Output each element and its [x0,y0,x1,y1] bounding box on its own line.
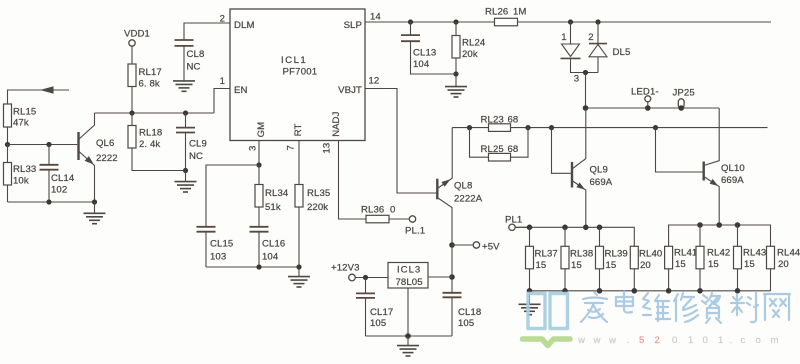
svg-text:105: 105 [458,318,474,329]
node ICL3 output junction [449,274,455,280]
transistor QL6 [79,113,118,202]
terminal LED1- [631,87,659,109]
wire sub-IC ground rail [206,266,299,268]
svg-text:RL33: RL33 [13,164,36,175]
svg-text:w: w [577,335,585,346]
node GM junction [256,162,261,167]
node rail RL42 [697,222,703,228]
svg-text:104: 104 [413,59,430,70]
node CL14 bottom [46,199,51,204]
node QL9 collector junction [583,105,589,111]
node RL24 bottom [453,71,458,76]
svg-text:RL40: RL40 [639,249,662,260]
wire QL8 emitter down [451,245,453,293]
svg-text:RL43: RL43 [743,248,766,259]
node base rail left [5,142,10,147]
capacitor CL18 [443,293,482,336]
svg-text:VDD1: VDD1 [124,29,150,40]
svg-text:15: 15 [708,259,719,270]
wire SLP top rail [365,21,771,23]
resistor RL36 [361,205,409,223]
node rail RL38 [562,225,568,231]
resistor RL39 [596,227,628,290]
svg-text:3: 3 [248,146,259,151]
svg-text:RL24: RL24 [462,38,486,49]
svg-text:7: 7 [286,145,297,150]
svg-text:CL14: CL14 [51,173,75,184]
svg-text:1M: 1M [513,7,527,18]
svg-text:.: . [627,335,630,346]
svg-text:CL8: CL8 [187,49,205,60]
svg-text:NC: NC [187,62,201,73]
svg-text:DLM: DLM [234,20,255,31]
node ICL3 ground [405,333,411,339]
wire QL10 base feed [656,128,703,172]
svg-text:0: 0 [672,335,677,346]
resistor RL23 [481,115,519,132]
svg-text:CL13: CL13 [413,48,436,59]
node bottom RL37 [527,288,533,294]
node bottom RL42 [697,288,703,294]
capacitor CL15 [197,227,234,267]
node QL6 emitter at rail [92,199,97,204]
capacitor CL8 [175,23,231,81]
svg-text:RT: RT [293,123,304,136]
svg-text:QL8: QL8 [454,181,472,192]
resistor RL38 [561,227,593,290]
svg-text:3: 3 [574,74,579,85]
svg-text:RL37: RL37 [535,249,558,260]
wire RL23 rail [452,127,767,129]
svg-text:GM: GM [256,122,267,138]
svg-text:15: 15 [571,260,582,271]
svg-text:15: 15 [744,259,755,270]
wire QL6 base rail [8,144,78,146]
resistor RL43 [734,225,767,291]
resistor RL37 [526,227,558,290]
svg-text:c: c [741,335,746,346]
ground below CL8 [173,81,195,91]
node DL5 pin2 top [595,19,600,24]
node RL35 bottom [296,264,301,269]
node CL14 top [46,142,51,147]
node LED1 junction [645,105,651,111]
terminal +5V [452,242,500,253]
svg-text:RL44: RL44 [777,248,800,259]
svg-text:10k: 10k [13,176,29,187]
node DL5 common [583,70,588,75]
node rail RL37 [527,225,533,231]
transistor QL8 [437,128,482,245]
node DL5 pin1 top [568,19,573,24]
wire ICL3 out [428,276,452,278]
svg-text:RL15: RL15 [13,107,36,118]
svg-text:0: 0 [390,205,395,216]
node CL17 top [363,275,368,280]
node +5V junction [449,242,455,248]
svg-text:CL16: CL16 [262,239,285,250]
ground below QL6 emitter [84,202,106,224]
svg-text:0: 0 [703,335,708,346]
svg-text:2: 2 [588,32,593,43]
svg-text:DL5: DL5 [613,47,631,58]
node RL25 right [525,125,530,130]
svg-text:669A: 669A [721,175,744,186]
pin 3 GM [248,122,268,165]
transistor QL10 [704,108,745,225]
wire GM to CL15 [206,165,259,227]
svg-text:ICL1: ICL1 [281,55,307,66]
capacitor CL16 [250,227,286,267]
svg-text:NC: NC [189,151,203,162]
svg-text:1: 1 [718,335,723,346]
arrow left-pointing on feed line [40,86,54,93]
svg-text:2222: 2222 [96,153,118,164]
ground below RL24 [445,74,467,97]
resistor RL41 [665,246,698,290]
svg-text:20k: 20k [462,49,478,60]
svg-text:669A: 669A [590,177,613,188]
node bottom RL39 [597,288,603,294]
node RL24 top [453,19,458,24]
node QL10 base junction [653,125,658,130]
node CL9 top [183,110,188,115]
ground below ICL3 [397,336,419,356]
resistor RL35 [295,185,330,268]
svg-text:QL9: QL9 [590,165,608,176]
svg-text:51k: 51k [265,202,281,213]
resistor RL42 [696,225,730,291]
wire arrow feed line top-left [8,90,70,104]
svg-text:105: 105 [370,318,386,329]
pin 2 DLM label [220,14,255,32]
svg-text:ICL3: ICL3 [397,265,421,276]
wire EN riser [214,89,230,114]
node bottom RL40 [632,288,638,294]
pin 1 EN label [220,76,248,96]
pin 12 VBJT label [338,76,379,97]
capacitor CL14 [40,145,75,203]
wire QL9 base feed [552,128,571,174]
node QL9 base junction [549,125,554,130]
svg-text:CL18: CL18 [458,307,481,318]
resistor RL40 [630,246,662,290]
node CL13 top [408,19,413,24]
resistor RL26 [485,7,527,26]
svg-text:14: 14 [370,12,381,23]
svg-text:+5V: +5V [482,242,500,253]
capacitor CL9 [176,113,207,171]
resistor RL15 [4,104,37,145]
svg-text:VBJT: VBJT [338,85,362,96]
svg-text:1: 1 [220,76,225,87]
node CL16 bottom [256,264,261,269]
svg-text:o: o [756,335,761,346]
resistor RL17 [128,64,162,113]
svg-text:SLP: SLP [344,20,362,31]
svg-text:6. 8k: 6. 8k [139,79,160,90]
ground below network rail [519,291,541,315]
svg-text:QL6: QL6 [96,138,114,149]
svg-text:RL18: RL18 [139,128,162,139]
svg-text:12: 12 [369,76,380,87]
ground below CL9 [175,171,197,193]
node bottom RL41 [666,288,672,294]
svg-text:QL10: QL10 [721,163,745,174]
terminal PL1 [505,215,530,231]
svg-text:CL15: CL15 [210,239,233,250]
pin 14 SLP label [344,12,382,32]
pin 7 RT [286,123,305,184]
node JP25 junction [678,105,684,111]
svg-text:PF7001: PF7001 [283,67,318,78]
capacitor CL17 [356,278,393,337]
svg-text:15: 15 [606,260,617,271]
node rail RL39 [597,225,603,231]
capacitor CL13 [401,22,456,74]
resistor RL24 [452,22,486,74]
svg-text:1: 1 [688,335,693,346]
svg-text:RL36: RL36 [361,205,384,216]
svg-text:EN: EN [234,85,248,96]
svg-text:1: 1 [561,32,566,43]
svg-text:104: 104 [262,252,279,263]
svg-text:RL42: RL42 [707,248,730,259]
svg-text:PL.1: PL.1 [405,226,425,237]
node rail RL43 [735,222,741,228]
svg-text:2. 4k: 2. 4k [139,139,160,150]
resistor RL18 [128,113,186,171]
wire VBJT to QL8 base [365,89,436,194]
resistor RL34 [255,165,289,227]
svg-text:RL26: RL26 [485,7,508,18]
terminal PL.1 [405,216,425,237]
svg-text:m: m [771,335,779,346]
svg-text:CL17: CL17 [370,307,393,318]
wire ICL3 ground rail [366,335,453,337]
svg-text:JP25: JP25 [673,88,695,99]
node bottom RL38 [562,288,568,294]
svg-text:2: 2 [220,14,225,25]
jumper JP25 [673,88,695,109]
svg-text:20: 20 [640,260,651,271]
terminal +12V3 [331,263,388,281]
svg-text:220k: 220k [307,202,328,213]
resistor RL44 [767,246,800,290]
node collector rail [95,112,215,114]
svg-text:15: 15 [536,260,547,271]
wire network bottom rail [530,290,771,292]
ground below RL35 [288,267,310,287]
IC ICL1 PF7001 [230,9,365,141]
svg-text:+12V3: +12V3 [331,263,360,274]
wire left emitter rail [515,227,634,246]
node RL17 bottom [129,110,134,115]
svg-text:102: 102 [51,185,67,196]
resistor RL25 [470,128,529,161]
svg-text:w: w [608,335,616,346]
svg-text:2: 2 [655,335,660,346]
svg-text:RL41: RL41 [674,248,697,259]
svg-text:.: . [730,335,733,346]
wire right emitter rail [669,225,771,246]
svg-text:15: 15 [675,259,686,270]
wire DL5 to LED rail [585,73,587,109]
svg-text:78L05: 78L05 [396,277,423,288]
node rail QL10 emitter [716,222,722,228]
resistor RL33 [4,145,37,203]
wire LED/JP25 rail [586,107,720,109]
node CL9 bottom [183,168,188,173]
svg-text:RL17: RL17 [139,67,162,78]
svg-text:CL9: CL9 [189,139,207,150]
svg-text:NADJ: NADJ [331,112,342,137]
svg-text:13: 13 [322,143,333,154]
regulator ICL3 78L05 [388,263,428,337]
terminal VDD1 [124,29,150,65]
svg-text:RL35: RL35 [307,188,330,199]
svg-text:20: 20 [778,259,789,270]
svg-text:47k: 47k [13,118,29,129]
svg-text:RL34: RL34 [265,188,289,199]
pin 13 NADJ [322,112,367,219]
svg-text:103: 103 [210,252,226,263]
svg-text:5: 5 [639,335,644,346]
svg-text:2222A: 2222A [454,194,483,205]
svg-text:RL39: RL39 [605,249,628,260]
svg-text:LED1-: LED1- [631,87,659,98]
wire emitter bottom rail [8,201,95,203]
svg-text:RL38: RL38 [570,249,593,260]
transistor QL9 [572,108,613,227]
node rail QL9 emitter [583,225,589,231]
node RL25 left [467,125,472,130]
svg-text:w: w [593,335,601,346]
diode DL5 [561,22,631,85]
node bottom RL43 [735,288,741,294]
